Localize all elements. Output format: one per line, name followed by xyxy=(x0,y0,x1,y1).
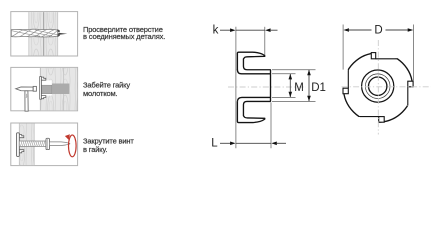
claw tab left (front) xyxy=(343,88,348,94)
claw cut chord line left xyxy=(347,70,349,88)
icon1 frame xyxy=(11,12,78,56)
icon2 frame xyxy=(11,67,78,110)
icon1 drill bit xyxy=(11,29,67,37)
icon3 red rotation arrow xyxy=(65,134,76,157)
icon3 tee nut flange xyxy=(17,133,20,157)
icon1 boards xyxy=(29,12,58,55)
barrel end face xyxy=(270,70,272,102)
upper flange + prong + barrel outer top xyxy=(237,52,271,70)
dimension k xyxy=(213,25,278,37)
dimension D xyxy=(343,24,413,36)
icon2 drilled hole xyxy=(52,84,70,95)
lower bore wall xyxy=(237,97,271,102)
flange notches (erase arc segments) xyxy=(341,49,415,125)
svg-text:молотком.: молотком. xyxy=(83,89,118,98)
thread circle (front, thin) xyxy=(365,74,390,99)
claw tab top (front) xyxy=(371,53,375,59)
icon2 hammer xyxy=(16,86,37,111)
icon3 screw head / washer xyxy=(46,138,50,149)
icon2 tee nut flange xyxy=(40,77,42,100)
extension line left (k/L) xyxy=(235,27,237,149)
dimension M arrow xyxy=(289,74,304,97)
flange disc (front) xyxy=(343,53,412,122)
extension line prong tips (k right) xyxy=(264,27,266,55)
icon3 frame xyxy=(11,123,78,166)
svg-text:D: D xyxy=(374,24,382,36)
M extension lines xyxy=(272,74,296,98)
icon3 threaded screw shaft xyxy=(19,141,46,146)
icon2 white pocket between claws xyxy=(41,80,52,95)
svg-text:k: k xyxy=(213,25,219,37)
claw tab bottom (front) xyxy=(379,117,385,123)
D1 extension lines xyxy=(272,70,316,102)
svg-text:в гайку.: в гайку. xyxy=(83,145,107,154)
text block 3 xyxy=(83,137,134,154)
icon3 board xyxy=(19,124,34,166)
dimension L xyxy=(211,137,286,149)
barrel circle (front) xyxy=(362,70,394,102)
D extension line left xyxy=(342,25,344,88)
centerline side view xyxy=(228,86,306,88)
dimension D1 arrow xyxy=(307,70,326,102)
icon2 board xyxy=(40,68,77,110)
svg-text:L: L xyxy=(211,137,218,149)
claw cut chord line bottom xyxy=(360,116,381,118)
upper bore wall xyxy=(237,70,271,74)
text block 1 xyxy=(83,25,165,41)
icon2 nut barrel (gray tongue into hole) xyxy=(41,85,52,94)
lower flange + prong + barrel outer bottom xyxy=(237,101,271,122)
horizontal centerline front view xyxy=(342,86,432,88)
icon3 tee nut claws xyxy=(19,135,23,153)
D extension line right xyxy=(413,25,415,81)
claw cut chord line right xyxy=(407,87,409,106)
extension line barrel end (L right) xyxy=(270,103,272,149)
svg-text:D1: D1 xyxy=(311,82,326,94)
tee nut body (section outline) xyxy=(237,52,271,122)
icon3 screwdriver shaft and tip xyxy=(50,142,70,146)
icon2 tee nut claws xyxy=(41,77,45,99)
text block 2 xyxy=(83,81,130,98)
claw cut chord line top xyxy=(376,58,398,60)
claw tab right (front) xyxy=(408,81,413,87)
svg-text:в соединяемых деталях.: в соединяемых деталях. xyxy=(83,32,165,41)
vertical centerline front view xyxy=(377,40,379,135)
svg-text:M: M xyxy=(294,82,304,94)
bore circle (front) xyxy=(369,77,387,95)
